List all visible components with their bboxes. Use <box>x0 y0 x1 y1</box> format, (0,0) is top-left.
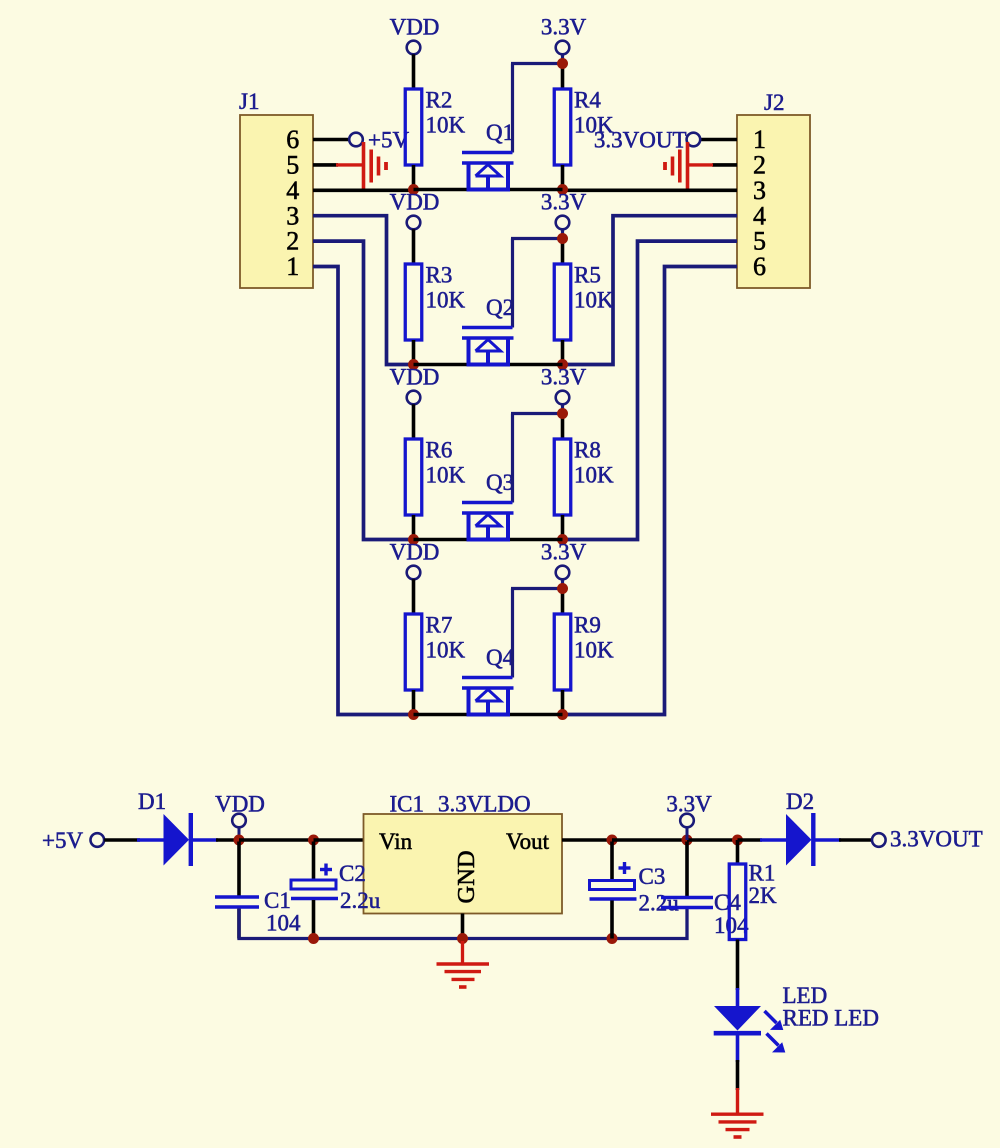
pin number J2-6 <box>753 252 766 281</box>
label C1 <box>264 888 291 913</box>
net label 3.3V supply <box>666 792 712 817</box>
label IC1 <box>390 792 425 817</box>
svg-text:10K: 10K <box>426 288 466 313</box>
label LED <box>783 983 828 1008</box>
plus sign C2 <box>320 864 332 876</box>
wire J2 pin5 bus <box>563 241 738 539</box>
wire R3 to row <box>412 340 416 365</box>
pin number J1-4 <box>286 176 299 205</box>
resistor R6 <box>405 439 422 515</box>
svg-text:Vout: Vout <box>506 829 550 854</box>
power ground symbol right (red) <box>665 142 688 190</box>
wire J1 pin5 <box>313 163 338 167</box>
LED light arrow 2 <box>767 1034 786 1053</box>
svg-text:3.3V: 3.3V <box>541 365 587 390</box>
svg-text:2K: 2K <box>749 883 778 908</box>
svg-text:VDD: VDD <box>390 540 440 565</box>
MOSFET Q3 <box>462 503 514 540</box>
svg-text:VDD: VDD <box>390 15 440 40</box>
label C4 <box>714 890 741 915</box>
label +5V input <box>42 828 83 853</box>
MOSFET Q4 <box>462 678 514 715</box>
wire J2 pin2 red segment <box>688 163 713 166</box>
label R4 <box>574 88 601 113</box>
wire VDD terminal to R2 <box>412 54 416 89</box>
LED D3 <box>714 988 761 1062</box>
junction C2 ground <box>308 933 319 944</box>
label 3.3VLDO <box>438 792 531 817</box>
wire R1 node to D2 <box>738 838 763 842</box>
wire R2 to row <box>412 165 416 190</box>
svg-text:3.3VLDO: 3.3VLDO <box>438 792 531 817</box>
value 2.2u of C3 <box>639 891 680 916</box>
svg-text:6: 6 <box>753 252 766 281</box>
wire ground rail <box>239 909 687 939</box>
wire R1 to LED <box>736 940 740 991</box>
label R3 <box>426 263 453 288</box>
svg-text:D2: D2 <box>786 789 814 814</box>
label Q2 <box>486 295 514 320</box>
junction VDD row stage3 <box>408 534 419 545</box>
wire J1 pin1 bus <box>313 267 414 715</box>
svg-text:R2: R2 <box>426 88 453 113</box>
connector J1 <box>240 115 313 288</box>
svg-text:D1: D1 <box>138 789 166 814</box>
svg-text:R4: R4 <box>574 88 601 113</box>
svg-text:IC1: IC1 <box>390 792 425 817</box>
label R7 <box>426 613 453 638</box>
resistor R7 <box>405 614 422 690</box>
wire +5V to D1 <box>104 838 140 842</box>
LED light arrow 1 <box>765 1011 784 1030</box>
svg-text:10K: 10K <box>426 463 466 488</box>
label R6 <box>426 438 453 463</box>
terminal 3.3VOUT output <box>872 833 886 847</box>
value 10K of R2 <box>426 113 466 138</box>
label Q4 <box>486 645 515 670</box>
junction C3 ground <box>607 933 618 944</box>
wire row left stage2 <box>414 363 468 367</box>
wire D1 to VDD node <box>216 838 239 842</box>
svg-text:VDD: VDD <box>390 190 440 215</box>
svg-text:3.3VOUT: 3.3VOUT <box>890 827 983 852</box>
junction gate Q1 <box>557 58 568 69</box>
pin number J1-6 <box>286 125 299 154</box>
value 10K of R9 <box>574 638 614 663</box>
svg-text:Q2: Q2 <box>486 295 514 320</box>
power ground symbol left (red) <box>364 142 387 190</box>
svg-text:Q1: Q1 <box>486 120 514 145</box>
net label VDD supply <box>215 792 265 817</box>
value 10K of R8 <box>574 463 614 488</box>
pin number J1-5 <box>286 151 299 180</box>
label R8 <box>574 438 601 463</box>
svg-text:Q4: Q4 <box>486 645 515 670</box>
pin number J1-3 <box>286 201 299 230</box>
junction GND rail <box>457 933 468 944</box>
label Q3 <box>486 470 514 495</box>
wire R6 to row <box>412 515 416 540</box>
svg-text:J2: J2 <box>764 90 784 115</box>
junction VDD row stage2 <box>408 359 419 370</box>
wire row left stage1 <box>414 188 468 192</box>
wire row left stage4 <box>414 713 468 717</box>
svg-text:R6: R6 <box>426 438 453 463</box>
svg-text:10K: 10K <box>574 288 614 313</box>
junction gate Q3 <box>557 408 568 419</box>
pin number J2-5 <box>753 227 766 256</box>
wire R8 to row <box>561 515 565 540</box>
value 10K of R7 <box>426 638 466 663</box>
wire R4 to row <box>561 165 565 190</box>
label D2 <box>786 789 814 814</box>
value 2.2u of C2 <box>340 888 381 913</box>
svg-text:3.3V: 3.3V <box>541 540 587 565</box>
value 104 of C4 <box>714 913 749 938</box>
label C3 <box>639 864 666 889</box>
svg-text:GND: GND <box>453 850 480 903</box>
pin number J1-2 <box>286 227 299 256</box>
svg-text:3.3V: 3.3V <box>541 190 587 215</box>
svg-text:C2: C2 <box>339 861 366 886</box>
wire gate node to R5 <box>561 239 565 265</box>
net label 3.3V stage3 <box>541 365 587 390</box>
svg-text:R7: R7 <box>426 613 453 638</box>
svg-text:10K: 10K <box>426 638 466 663</box>
svg-text:RED LED: RED LED <box>783 1006 879 1031</box>
pin number J2-2 <box>753 151 766 180</box>
gate lead Q2 <box>511 239 563 328</box>
wire gate node to R8 <box>561 414 565 440</box>
svg-text:3.3V: 3.3V <box>541 15 587 40</box>
junction 3.3V row stage2 <box>557 359 568 370</box>
wire VDD terminal stub <box>238 827 241 840</box>
wire 3.3V terminal to gate node <box>561 229 564 238</box>
plus sign C3 <box>619 862 631 874</box>
wire row right stage4 <box>510 713 563 717</box>
resistor R9 <box>554 614 571 690</box>
capacitor C4 <box>661 842 713 908</box>
MOSFET Q2 <box>462 328 514 365</box>
terminal VDD stage4 <box>407 566 421 580</box>
junction gate Q4 <box>557 583 568 594</box>
pin number J1-1 <box>286 252 299 281</box>
wire LED to ground <box>736 1060 740 1090</box>
value 10K of R4 <box>574 113 614 138</box>
wire J2 pin1 <box>700 138 737 142</box>
pin label Vin <box>379 829 413 854</box>
wire row left stage3 <box>414 538 468 542</box>
label 3.3VOUT output <box>890 827 983 852</box>
wire rail VDD to C2 <box>239 838 314 842</box>
wire J2 pin3 <box>563 189 738 193</box>
earth ground IC1 (red) <box>437 941 490 987</box>
label J1 <box>239 89 259 114</box>
terminal +5V input <box>91 833 105 847</box>
label D1 <box>138 789 166 814</box>
junction C2 rail <box>308 835 319 846</box>
wire rail C2 to IC1 <box>314 838 364 842</box>
resistor R8 <box>554 439 571 515</box>
wire gate node to R9 <box>561 589 565 615</box>
label +5V <box>368 128 409 153</box>
connector J2 <box>737 115 810 288</box>
svg-text:J1: J1 <box>239 89 259 114</box>
terminal +5V <box>349 133 363 147</box>
wire 3.3V terminal to gate node <box>561 404 564 413</box>
svg-text:VDD: VDD <box>390 365 440 390</box>
earth ground LED (red) <box>711 1114 764 1137</box>
wire J1 pin5 red segment <box>336 163 362 166</box>
resistor R2 <box>405 89 422 165</box>
value 104 of C1 <box>266 911 301 936</box>
terminal 3.3V stage1 <box>556 41 570 55</box>
wire row right stage3 <box>510 538 563 542</box>
wire D2 to output <box>839 838 872 842</box>
svg-text:104: 104 <box>266 911 301 936</box>
svg-text:C3: C3 <box>639 864 666 889</box>
net label VDD stage1 <box>390 15 440 40</box>
label R1 <box>749 861 776 886</box>
svg-text:10K: 10K <box>574 638 614 663</box>
pin number J2-3 <box>753 176 766 205</box>
wire J1 pin4 <box>313 189 414 193</box>
MOSFET Q1 <box>462 153 514 190</box>
junction 3.3V row stage4 <box>557 709 568 720</box>
label J2 <box>764 90 784 115</box>
label R2 <box>426 88 453 113</box>
terminal 3.3VOUT top <box>687 133 701 147</box>
svg-text:R3: R3 <box>426 263 453 288</box>
wire VDD terminal to R7 <box>412 579 416 614</box>
diode D2 <box>760 813 841 866</box>
svg-text:10K: 10K <box>574 463 614 488</box>
value 10K of R3 <box>426 288 466 313</box>
resistor R4 <box>554 89 571 165</box>
svg-text:R8: R8 <box>574 438 601 463</box>
value 10K of R5 <box>574 288 614 313</box>
svg-text:2.2u: 2.2u <box>639 891 680 916</box>
wire 3.3V terminal stub <box>686 827 689 840</box>
junction R1 rail <box>732 835 743 846</box>
label R5 <box>574 263 601 288</box>
svg-text:+5V: +5V <box>42 828 83 853</box>
wire VDD terminal to R3 <box>412 229 416 264</box>
junction VDD row stage4 <box>408 709 419 720</box>
svg-text:LED: LED <box>783 983 828 1008</box>
terminal VDD stage2 <box>407 216 421 230</box>
wire row right stage1 <box>510 188 563 192</box>
junction C3 rail <box>607 835 618 846</box>
wire R9 to row <box>561 690 565 715</box>
resistor R3 <box>405 264 422 340</box>
gate lead Q4 <box>511 589 563 678</box>
wire J2 pin4 bus <box>563 216 738 365</box>
terminal 3.3V stage3 <box>556 391 570 405</box>
terminal 3.3V stage4 <box>556 566 570 580</box>
pin label GND <box>453 850 480 903</box>
wire LED ground red segment <box>736 1088 739 1113</box>
svg-text:R1: R1 <box>749 861 776 886</box>
capacitor C2 <box>291 842 338 939</box>
resistor R5 <box>554 264 571 340</box>
terminal 3.3V supply <box>680 814 694 828</box>
svg-text:10K: 10K <box>426 113 466 138</box>
wire rail 3.3V to R1 <box>687 838 738 842</box>
terminal VDD stage3 <box>407 391 421 405</box>
terminal VDD supply <box>232 814 246 828</box>
gate lead Q3 <box>511 414 563 503</box>
svg-text:10K: 10K <box>574 113 614 138</box>
pin number J2-4 <box>753 201 766 230</box>
svg-text:R5: R5 <box>574 263 601 288</box>
label RED LED <box>783 1006 879 1031</box>
gate lead Q1 <box>511 64 563 153</box>
junction gate Q2 <box>557 233 568 244</box>
net label 3.3V stage4 <box>541 540 587 565</box>
net label VDD stage3 <box>390 365 440 390</box>
net label 3.3V stage1 <box>541 15 587 40</box>
junction 3.3V rail <box>682 835 693 846</box>
label 3.3VOUT top <box>594 128 687 153</box>
pin number J2-1 <box>753 125 766 154</box>
svg-text:R9: R9 <box>574 613 601 638</box>
label R9 <box>574 613 601 638</box>
wire R7 to row <box>412 690 416 715</box>
value 10K of R6 <box>426 463 466 488</box>
wire 3.3V terminal to gate node <box>561 54 564 63</box>
svg-text:1: 1 <box>286 252 299 281</box>
terminal 3.3V stage2 <box>556 216 570 230</box>
net label VDD stage2 <box>390 190 440 215</box>
svg-text:C1: C1 <box>264 888 291 913</box>
wire rail Vout to C3 <box>562 838 612 842</box>
wire VDD terminal to R6 <box>412 404 416 439</box>
resistor R1 <box>729 864 746 940</box>
wire R1 stub <box>736 840 740 864</box>
svg-text:+5V: +5V <box>368 128 409 153</box>
wire J2 pin2 <box>712 163 737 167</box>
svg-text:2.2u: 2.2u <box>340 888 381 913</box>
label C2 <box>339 861 366 886</box>
svg-text:Vin: Vin <box>379 829 413 854</box>
wire J2 pin6 bus <box>563 267 738 715</box>
IC U1 body (IC1 3.3V LDO) <box>364 814 563 914</box>
net label 3.3V stage2 <box>541 190 587 215</box>
pin label Vout <box>506 829 550 854</box>
capacitor C1 <box>215 842 259 939</box>
junction VDD rail <box>234 835 245 846</box>
svg-text:Q3: Q3 <box>486 470 514 495</box>
value 2K of R1 <box>749 883 778 908</box>
wire gate node to R4 <box>561 64 565 90</box>
wire R5 to row <box>561 340 565 365</box>
wire J1 pin3 bus <box>313 216 414 365</box>
junction VDD row stage1 <box>408 184 419 195</box>
terminal VDD stage1 <box>407 41 421 55</box>
junction 3.3V row stage3 <box>557 534 568 545</box>
wire 3.3V terminal to gate node <box>561 579 564 588</box>
capacitor C3 <box>590 842 637 939</box>
wire row right stage2 <box>510 363 563 367</box>
junction 3.3V row stage1 <box>557 184 568 195</box>
svg-text:104: 104 <box>714 913 749 938</box>
wire IC1 GND stub <box>461 914 465 939</box>
net label VDD stage4 <box>390 540 440 565</box>
wire J1 pin2 bus <box>313 241 414 539</box>
wire rail C3 to 3.3V <box>612 838 687 842</box>
label Q1 <box>486 120 514 145</box>
wire J1 pin6 <box>313 138 349 142</box>
diode D1 <box>137 813 218 866</box>
